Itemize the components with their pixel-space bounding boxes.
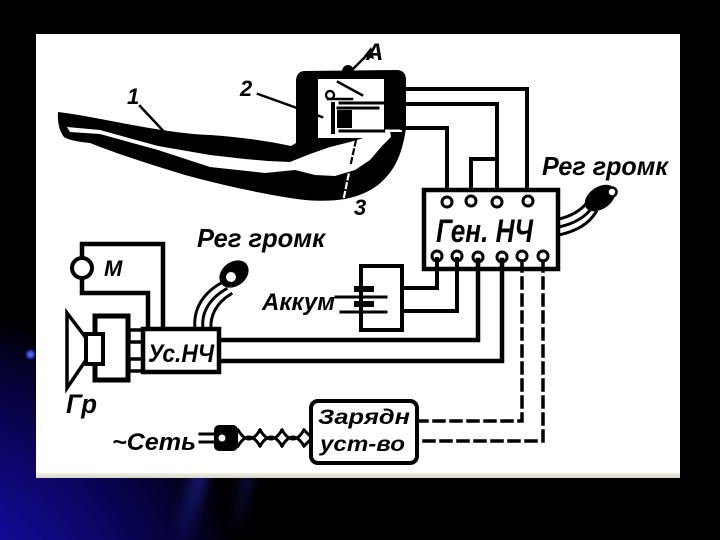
svg-text:А: А	[365, 39, 383, 66]
terminal t2 top	[466, 196, 476, 206]
light streak 1	[172, 469, 210, 540]
wire b4 to amplifier (lower run)	[219, 260, 502, 361]
mains plug	[200, 433, 217, 436]
scanned schematic panel	[36, 34, 680, 478]
svg-text:Аккум: Аккум	[261, 289, 335, 316]
earphone right	[580, 179, 620, 217]
dashed wire b5 to charger	[417, 261, 522, 421]
terminal b2 bottom	[452, 251, 462, 261]
dashed wire b6 to charger	[417, 261, 543, 441]
svg-text:уст-во: уст-во	[319, 433, 405, 456]
microphone circle	[72, 258, 92, 278]
svg-text:Рег громк: Рег громк	[197, 223, 327, 253]
battery plates Аккум	[354, 286, 374, 292]
connector arm bottom	[129, 359, 143, 371]
star	[25, 349, 36, 360]
svg-text:~Сеть: ~Сеть	[112, 429, 196, 456]
svg-text:1: 1	[127, 84, 139, 109]
microphone element in window	[326, 91, 334, 99]
battery symbol in window	[331, 104, 335, 132]
battery pack outline	[361, 266, 402, 330]
compartment window in bowl	[318, 79, 384, 138]
terminal b6 bottom	[538, 251, 548, 261]
amplifier box Ус НЧ	[143, 329, 219, 372]
connector arm top	[129, 330, 143, 342]
leader line 1	[140, 106, 168, 136]
leader line 3 dashed (white over black sweep)	[344, 163, 351, 197]
microphone box М	[82, 244, 163, 329]
svg-text:Рег громк: Рег громк	[542, 151, 670, 181]
loudspeaker cone Гр	[67, 313, 86, 388]
loudspeaker body	[95, 316, 128, 380]
svg-text:Ус.НЧ: Ус.НЧ	[148, 340, 215, 368]
wire b1 to battery	[404, 259, 437, 288]
svg-text:Ген. НЧ: Ген. НЧ	[436, 213, 534, 249]
leader arrow to label A	[354, 54, 368, 68]
svg-text:М: М	[104, 256, 123, 281]
svg-text:Зарядн: Зарядн	[318, 406, 410, 429]
wire slit on bowl right wall	[385, 130, 402, 133]
terminal t4 top	[523, 196, 533, 206]
charger box Зарядн уст-во	[311, 401, 417, 463]
leader line 2	[258, 94, 322, 117]
light streak 2	[229, 471, 254, 532]
wire bowl to terminal 1	[402, 128, 447, 199]
pipe body 1 (ear-tube silhouette with bowl)	[58, 70, 406, 201]
terminal b4 bottom	[497, 252, 507, 262]
terminal b5 bottom	[517, 251, 527, 261]
earphone left	[214, 255, 254, 294]
generator box Ген НЧ	[424, 190, 558, 269]
wire bowl to terminal 3	[400, 104, 497, 199]
button A on bowl top	[342, 65, 354, 79]
leader line 3 dashed (black over white)	[351, 140, 356, 163]
terminal t3 top	[492, 197, 502, 207]
wire b2 to battery	[404, 259, 457, 311]
terminal b3 bottom	[473, 252, 483, 262]
loudspeaker driver	[86, 334, 103, 364]
svg-text:Гр: Гр	[66, 389, 97, 419]
pipe highlight stripe	[67, 127, 391, 176]
earphone cords left	[195, 283, 221, 329]
svg-text:3: 3	[354, 195, 366, 220]
twisted cord	[238, 430, 260, 446]
svg-text:2: 2	[239, 76, 253, 101]
wire terminal 2 jog	[471, 159, 497, 196]
terminal b1 bottom	[432, 251, 442, 261]
wire bowl to terminal 4	[396, 89, 527, 199]
earphone cords right	[559, 204, 586, 219]
wire b3 to amplifier (upper run)	[219, 260, 478, 340]
terminal t1 top	[442, 197, 452, 207]
